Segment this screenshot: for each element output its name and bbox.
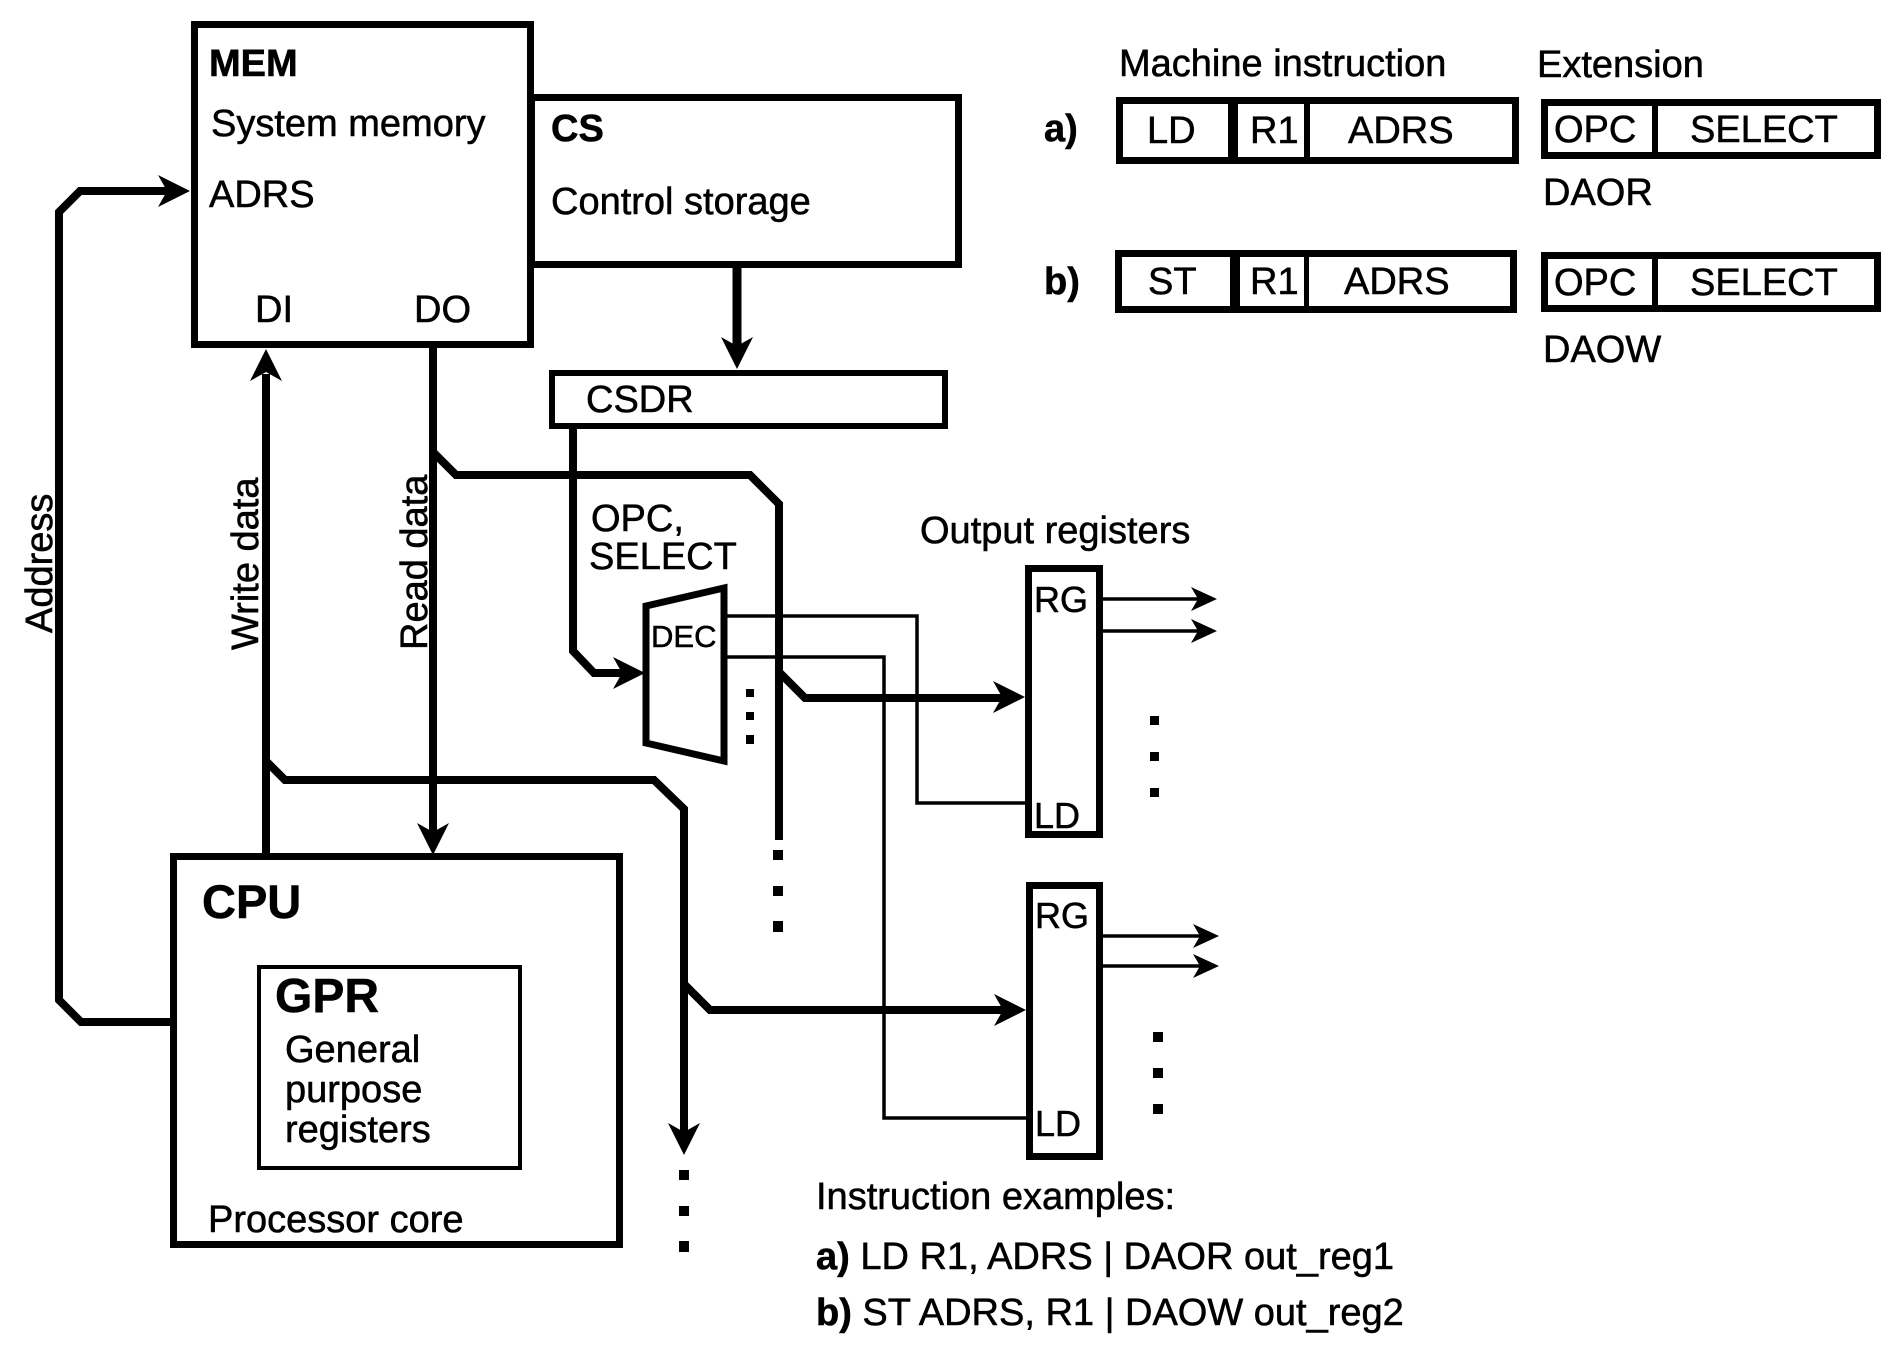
dots right of RG1: [1150, 716, 1159, 797]
block MEM (system memory): [195, 25, 531, 345]
arrowhead into MEM ADRS: [158, 175, 190, 207]
arrowhead into DEC: [613, 657, 645, 689]
RG2 output arrow 1: [1103, 934, 1202, 938]
svg-text:ADRS: ADRS: [1348, 110, 1454, 152]
dots below write-data down arrow: [679, 1170, 689, 1252]
register RG1: [1029, 569, 1100, 835]
wire CS to CSDR: [733, 264, 742, 348]
svg-text:Extension: Extension: [1537, 44, 1704, 86]
wire read data: MEM DO down to CPU: [429, 348, 437, 834]
svg-text:LD: LD: [1034, 795, 1080, 836]
svg-text:Control storage: Control storage: [551, 181, 811, 223]
svg-text:a): a): [1044, 108, 1078, 150]
wire branch arrow into RG1: [779, 672, 1006, 698]
svg-text:CSDR: CSDR: [586, 379, 694, 421]
instruction format b (ST R1 ADRS): [1119, 253, 1514, 310]
svg-text:Instruction examples:: Instruction examples:: [816, 1176, 1175, 1218]
svg-text:Address: Address: [19, 494, 61, 633]
RG2 output arrow 2: [1103, 964, 1202, 968]
svg-text:SELECT: SELECT: [1690, 109, 1838, 151]
wire branch arrow into RG2: [684, 984, 1007, 1010]
wire address: CPU left to MEM ADRS: [59, 191, 172, 1022]
wire write data branch going right and down: [266, 761, 684, 1134]
svg-text:Read data: Read data: [394, 474, 436, 650]
extension format a (OPC SELECT): [1545, 102, 1878, 156]
svg-text:DI: DI: [255, 289, 293, 331]
svg-text:LD: LD: [1147, 110, 1196, 152]
dots right of DEC: [746, 689, 754, 744]
block CPU: [174, 857, 620, 1245]
svg-text:R1: R1: [1250, 261, 1299, 303]
dots below read-data register column: [773, 850, 783, 932]
arrowhead into RG2: [994, 994, 1026, 1026]
wire CSDR to DEC (OPC,SELECT): [573, 426, 626, 673]
svg-text:DAOW: DAOW: [1543, 329, 1661, 371]
RG1 output arrow 1: [1103, 597, 1200, 601]
svg-text:CPU: CPU: [202, 875, 301, 928]
arrowhead into RG1: [993, 681, 1025, 713]
wire write data: CPU top up to MEM DI: [262, 374, 270, 858]
svg-text:Machine instruction: Machine instruction: [1119, 43, 1446, 85]
extension format b (OPC SELECT): [1545, 255, 1878, 309]
dots right of RG2: [1153, 1032, 1163, 1114]
svg-text:Output registers: Output registers: [920, 510, 1190, 552]
svg-text:MEM: MEM: [209, 43, 298, 85]
svg-text:DO: DO: [414, 289, 471, 331]
svg-text:GPR: GPR: [275, 970, 379, 1023]
svg-text:ADRS: ADRS: [1344, 261, 1450, 303]
svg-text:LD: LD: [1035, 1103, 1081, 1144]
svg-text:RG: RG: [1034, 579, 1088, 620]
svg-text:General: General: [285, 1029, 420, 1071]
svg-text:b): b): [1044, 261, 1080, 303]
svg-text:ADRS: ADRS: [209, 174, 315, 216]
block GPR: [259, 967, 520, 1168]
decoder DEC: [646, 588, 724, 761]
wire DEC out1 to RG1 LD: [723, 616, 1025, 803]
RG1 output arrow 2: [1103, 629, 1200, 633]
svg-text:DEC: DEC: [651, 619, 716, 654]
svg-text:registers: registers: [285, 1109, 431, 1151]
register RG2: [1030, 886, 1100, 1157]
block CSDR: [552, 373, 945, 426]
svg-text:Write data: Write data: [225, 477, 267, 650]
wire read data branch to register column: [433, 452, 779, 840]
svg-text:OPC: OPC: [1554, 109, 1636, 151]
svg-text:a) LD R1, ADRS | DAOR out_reg1: a) LD R1, ADRS | DAOR out_reg1: [816, 1236, 1394, 1278]
arrowhead into MEM DI: [250, 349, 282, 381]
block CS (control storage): [532, 98, 959, 265]
svg-text:OPC,: OPC,: [591, 498, 684, 540]
svg-text:SELECT: SELECT: [1690, 262, 1838, 304]
instruction format a (LD R1 ADRS): [1120, 100, 1516, 161]
svg-text:System memory: System memory: [211, 103, 485, 145]
svg-text:ST: ST: [1148, 261, 1197, 303]
arrowhead down (more registers): [668, 1123, 700, 1155]
svg-text:RG: RG: [1035, 895, 1089, 936]
svg-text:purpose: purpose: [285, 1069, 422, 1111]
svg-text:b) ST ADRS, R1 | DAOW out_reg2: b) ST ADRS, R1 | DAOW out_reg2: [816, 1292, 1404, 1334]
arrowhead into CSDR: [721, 337, 753, 369]
wire DEC out2 to RG2 LD: [723, 657, 1026, 1118]
svg-text:Processor core: Processor core: [208, 1199, 464, 1241]
svg-text:OPC: OPC: [1554, 262, 1636, 304]
arrowhead into CPU top: [417, 823, 449, 855]
svg-text:DAOR: DAOR: [1543, 172, 1653, 214]
svg-text:R1: R1: [1250, 110, 1299, 152]
svg-text:SELECT: SELECT: [589, 536, 737, 578]
svg-text:CS: CS: [551, 108, 604, 150]
